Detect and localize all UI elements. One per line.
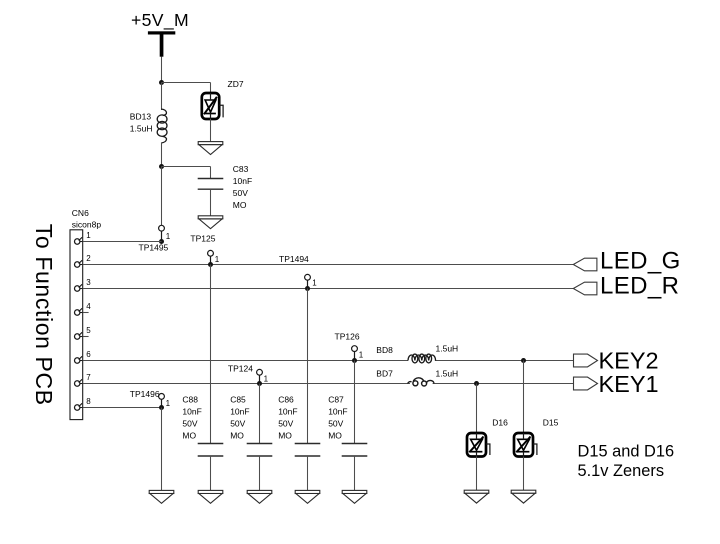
inductor BD8 — [408, 354, 436, 363]
svg-text:6: 6 — [86, 350, 91, 359]
port KEY1 — [574, 377, 598, 390]
svg-text:MO: MO — [182, 431, 196, 441]
svg-text:10nF: 10nF — [230, 406, 249, 416]
svg-text:1.5uH: 1.5uH — [436, 344, 459, 354]
ground (C85) — [247, 490, 272, 503]
svg-text:1: 1 — [166, 232, 171, 241]
wire +5V_M stem to node A — [161, 57, 163, 83]
svg-text:LED_R: LED_R — [600, 273, 679, 300]
svg-text:1: 1 — [215, 255, 220, 264]
wire TP1494 to C86 — [307, 289, 309, 444]
svg-text:BD8: BD8 — [376, 345, 393, 355]
wire net KEY2 left segment (pin6) — [83, 360, 408, 362]
svg-text:10nF: 10nF — [233, 176, 252, 186]
wire TP125 to C88 — [210, 265, 212, 444]
ground (C83) — [198, 216, 223, 229]
wire net KEY2 right segment — [435, 360, 574, 362]
svg-text:+5V_M: +5V_M — [131, 10, 189, 31]
wire TP124 stub — [259, 375, 261, 383]
svg-text:BD7: BD7 — [376, 369, 393, 379]
wire C88 to ground — [210, 456, 212, 490]
svg-text:10nF: 10nF — [278, 406, 297, 416]
svg-text:1: 1 — [312, 279, 317, 288]
svg-text:2: 2 — [86, 254, 91, 263]
test point TP1496 — [159, 394, 165, 400]
svg-text:10nF: 10nF — [182, 406, 201, 416]
svg-text:C86: C86 — [278, 394, 294, 404]
svg-text:1.5uH: 1.5uH — [436, 369, 459, 379]
svg-text:MO: MO — [328, 431, 342, 441]
svg-text:KEY2: KEY2 — [599, 347, 659, 373]
wire TP126 to C87 — [354, 361, 356, 444]
junction TP124 pin1 — [257, 381, 262, 386]
wire pin8 to TP1496 — [83, 407, 162, 409]
wire net LED_G (pin2) — [83, 264, 574, 266]
ground (TP1496) — [149, 490, 174, 503]
capacitor C86 — [295, 444, 321, 457]
ground (C88) — [198, 490, 223, 503]
junction TP126 pin1 — [352, 358, 357, 363]
svg-text:D15 and D16: D15 and D16 — [578, 442, 675, 460]
svg-text:BD13: BD13 — [130, 111, 152, 121]
junction TP1496 pin1 — [159, 405, 164, 410]
svg-text:3: 3 — [86, 278, 91, 287]
svg-text:C83: C83 — [233, 164, 249, 174]
svg-text:5: 5 — [86, 326, 91, 335]
port LED_R — [573, 282, 597, 295]
ground (D16) — [464, 490, 489, 503]
wire pin5 stub — [83, 336, 89, 338]
svg-text:1: 1 — [264, 375, 269, 384]
wire TP1495 stub — [161, 231, 163, 241]
svg-text:1: 1 — [86, 231, 91, 240]
svg-text:7: 7 — [86, 373, 91, 382]
ground (C86) — [295, 490, 320, 503]
svg-text:ZD7: ZD7 — [228, 79, 244, 89]
junction node A — [159, 80, 164, 85]
connector CN6 sicon8p — [70, 230, 83, 420]
svg-text:TP124: TP124 — [228, 363, 253, 373]
svg-text:50V: 50V — [182, 419, 197, 429]
wire TP1496 to ground — [161, 408, 163, 491]
test point TP1494 — [305, 274, 311, 280]
test point TP125 — [208, 250, 214, 256]
inductor BD13 — [157, 109, 167, 143]
svg-text:4: 4 — [86, 302, 91, 311]
wire node B to TP1495 — [161, 167, 163, 226]
wire KEY2 junction to D15 — [523, 361, 525, 434]
wire TP1494 stub — [307, 280, 309, 288]
svg-text:KEY1: KEY1 — [599, 371, 659, 397]
junction TP1495 pin1 — [159, 239, 164, 244]
svg-text:C88: C88 — [182, 394, 198, 404]
port KEY2 — [574, 354, 598, 367]
svg-text:1: 1 — [359, 351, 364, 360]
wire C85 to ground — [259, 456, 261, 490]
svg-text:D15: D15 — [543, 417, 559, 427]
zener diode D15 — [514, 433, 537, 457]
svg-text:C85: C85 — [230, 394, 246, 404]
wire net KEY1 left segment (pin7) — [83, 383, 410, 385]
svg-text:8: 8 — [86, 397, 91, 406]
svg-text:50V: 50V — [328, 419, 343, 429]
svg-text:MO: MO — [230, 431, 244, 441]
port LED_G — [573, 258, 597, 271]
svg-text:TP1494: TP1494 — [279, 254, 309, 264]
test point TP126 — [352, 346, 358, 352]
wire TP124 to C85 — [259, 384, 261, 444]
svg-text:sicon8p: sicon8p — [72, 219, 102, 229]
wire C87 to ground — [354, 456, 356, 490]
junction node B — [159, 164, 164, 169]
svg-text:1: 1 — [166, 399, 171, 408]
svg-text:MO: MO — [233, 200, 247, 210]
svg-text:5.1v Zeners: 5.1v Zeners — [578, 462, 665, 480]
wire KEY1 junction to D16 — [476, 384, 478, 434]
svg-text:50V: 50V — [278, 419, 293, 429]
test point TP1495 — [159, 225, 165, 231]
svg-text:TP125: TP125 — [190, 234, 215, 244]
svg-text:50V: 50V — [233, 188, 248, 198]
svg-text:TP1496: TP1496 — [130, 389, 160, 399]
wire node B to C83 — [162, 167, 211, 179]
svg-text:D16: D16 — [492, 417, 508, 427]
svg-text:LED_G: LED_G — [600, 248, 681, 275]
wire D16 to ground — [476, 457, 478, 491]
zener diode D16 — [467, 433, 490, 457]
svg-text:C87: C87 — [328, 394, 344, 404]
svg-text:CN6: CN6 — [72, 208, 89, 218]
ground (ZD7) — [198, 142, 223, 155]
capacitor C85 — [247, 444, 273, 457]
wire BD13 to node B — [161, 143, 163, 167]
svg-text:50V: 50V — [230, 419, 245, 429]
test point TP124 — [257, 369, 263, 375]
junction KEY2/D15 — [521, 358, 526, 363]
ground (D15) — [511, 490, 536, 503]
wire ZD7 to ground — [210, 119, 212, 142]
svg-text:1.5uH: 1.5uH — [130, 124, 153, 134]
junction TP125 pin1 — [208, 262, 213, 267]
ground (C87) — [342, 490, 367, 503]
inductor BD7 — [408, 378, 435, 386]
wire node A to BD13 — [161, 83, 163, 111]
zener diode ZD7 — [202, 93, 223, 119]
wire D15 to ground — [523, 457, 525, 491]
capacitor C83 — [198, 179, 224, 190]
wire TP125 stub — [210, 256, 212, 264]
capacitor C88 — [198, 444, 224, 457]
power symbol +5V_M — [148, 31, 175, 56]
wire net KEY1 right segment — [433, 383, 574, 385]
svg-text:MO: MO — [278, 431, 292, 441]
wire C86 to ground — [307, 456, 309, 490]
wire TP1496 stub — [161, 399, 163, 407]
capacitor C87 — [342, 444, 368, 457]
wire C83 to ground — [210, 189, 212, 216]
svg-text:TP1495: TP1495 — [139, 243, 169, 253]
wire pin4 stub — [83, 312, 89, 314]
wire TP126 stub — [354, 352, 356, 361]
junction TP1494 pin1 — [305, 286, 310, 291]
wire pin1 to TP1495 — [83, 241, 162, 243]
svg-text:To Function PCB: To Function PCB — [31, 224, 57, 406]
svg-text:10nF: 10nF — [328, 406, 347, 416]
junction KEY1/D16 — [474, 381, 479, 386]
wire node A to ZD7 — [162, 83, 211, 94]
svg-text:TP126: TP126 — [335, 331, 360, 341]
wire net LED_R (pin3) — [83, 288, 574, 290]
